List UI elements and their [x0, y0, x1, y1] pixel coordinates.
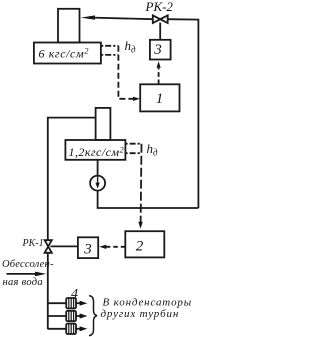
branch wire 2 — [48, 315, 66, 317]
wire: RK-2 stem down to box 3 — [159, 23, 161, 40]
svg-text:4: 4 — [71, 287, 78, 302]
svg-text:ная вода: ная вода — [3, 277, 43, 288]
arrow to condensers 1 — [76, 302, 82, 304]
deaerator D-6 column — [58, 9, 80, 43]
svg-text:3: 3 — [83, 242, 92, 258]
svg-text:РК-1: РК-1 — [22, 238, 44, 249]
heat exchanger 4 (second) — [66, 311, 76, 321]
heat exchanger 4 (first) — [66, 298, 76, 308]
wire: downcomer below RK-1 — [47, 253, 49, 329]
dashed signal: box 2 to lower box 3 — [103, 246, 125, 248]
svg-text:6 кгс/см2: 6 кгс/см2 — [39, 46, 90, 61]
wire: D-1.2 column left to downcomer and down to RK-1 — [48, 118, 96, 241]
svg-text:В конденсаторы: В конденсаторы — [103, 297, 193, 309]
box 2 (level regulator) — [125, 231, 164, 257]
valve RK-1 — [45, 240, 52, 246]
arrowhead into D-6 column — [81, 15, 95, 19]
svg-text:РК-2: РК-2 — [145, 0, 174, 14]
arrow to condensers 2 — [76, 315, 82, 317]
branch wire 3 — [48, 328, 66, 330]
impulse line h_d from D-6 taps — [101, 46, 118, 55]
impulse line h_d from D-1.2 taps — [125, 144, 141, 154]
valve RK-2 — [153, 15, 160, 23]
branch wire 1 — [48, 302, 66, 304]
arrow: demineralized water into downcomer — [7, 273, 42, 275]
wire: RK-1 to lower box 3 — [51, 245, 78, 247]
svg-text:других турбин: других турбин — [101, 308, 180, 320]
svg-text:1,2кгс/см2: 1,2кгс/см2 — [69, 144, 125, 159]
brace — [89, 296, 97, 336]
wire: RK-2 to right corner — [168, 19, 199, 208]
deaerator D-1.2 body — [65, 140, 125, 160]
box 1 (level regulator) — [140, 84, 179, 111]
dashed signal: box 1 up to box 3 — [158, 65, 160, 85]
heat exchanger 4 (third) — [66, 324, 76, 334]
arrow to condensers 3 — [76, 328, 82, 330]
wire: flow circle up to D-1.2 body — [97, 160, 99, 176]
impulse line h_d vertical and into box 1 — [118, 46, 136, 99]
box 3 upper (actuator) — [150, 40, 171, 60]
svg-text:1: 1 — [156, 91, 164, 107]
flow indicator circle — [90, 176, 105, 191]
box 3 lower (actuator) — [78, 237, 98, 258]
wire: bottom run from right riser to flow circle — [98, 191, 199, 208]
flow arrow inside circle — [97, 177, 99, 185]
svg-text:Обессолен-: Обессолен- — [2, 259, 54, 270]
svg-text:2: 2 — [136, 239, 144, 255]
deaerator D-1.2 column — [96, 108, 111, 140]
impulse line h_d vertical down to box 2 — [140, 144, 143, 225]
svg-text:3: 3 — [153, 42, 162, 58]
wire: steam line RK-2 to D-6 column — [92, 18, 153, 20]
deaerator D-6 body — [34, 43, 101, 64]
